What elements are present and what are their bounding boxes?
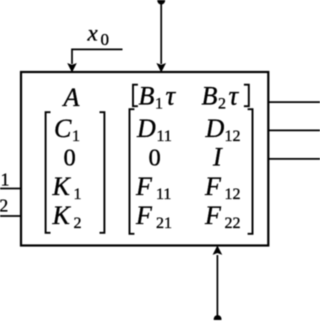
svg-text:A: A <box>62 83 80 112</box>
left bracket of [C1;0;K1;K2] <box>46 112 51 233</box>
wire right output 3 <box>268 158 320 160</box>
arrowhead into box top from x0 wire <box>68 64 76 72</box>
wire right output 1 <box>268 101 320 103</box>
matrix entry C1 <box>54 114 80 145</box>
right bracket of [D;0 I;F;F] <box>248 109 253 234</box>
svg-text:D: D <box>205 114 225 143</box>
svg-text:F: F <box>204 201 222 230</box>
svg-text:22: 22 <box>225 215 241 232</box>
svg-text:11: 11 <box>156 186 171 203</box>
matrix entry F21 <box>135 201 172 232</box>
svg-text:12: 12 <box>225 128 241 145</box>
matrix entry K1 <box>52 172 82 203</box>
svg-text:1: 1 <box>72 128 80 145</box>
svg-text:τ: τ <box>229 80 240 110</box>
node x0 label <box>87 21 110 49</box>
matrix entry B2*tau <box>202 80 240 112</box>
matrix entry F22 <box>204 201 241 232</box>
svg-text:B: B <box>202 81 218 110</box>
wire x0 (bent input wire) <box>72 49 123 64</box>
svg-text:0: 0 <box>149 145 161 172</box>
matrix entry K2 <box>52 201 82 232</box>
svg-text:D: D <box>136 114 156 143</box>
svg-text:1: 1 <box>74 186 82 203</box>
wire left input 1 <box>0 188 21 190</box>
svg-text:1: 1 <box>1 169 10 189</box>
svg-text:21: 21 <box>156 215 172 232</box>
svg-text:x: x <box>87 21 99 46</box>
wire right output 2 <box>268 129 320 131</box>
left bracket of [D;0 I;F;F] <box>130 109 135 234</box>
matrix entry F11 <box>135 172 171 203</box>
matrix entry D12 <box>205 114 241 145</box>
svg-text:B: B <box>139 81 155 110</box>
svg-text:K: K <box>52 201 72 230</box>
svg-text:I: I <box>212 143 223 172</box>
svg-text:τ: τ <box>166 80 177 110</box>
wire left input 2 <box>0 215 21 217</box>
svg-text:12: 12 <box>225 186 241 203</box>
svg-text:K: K <box>52 172 72 201</box>
wire bottom vertical <box>216 255 218 317</box>
svg-text:0: 0 <box>64 145 76 172</box>
right bracket of [B1t B2t] <box>244 85 249 107</box>
svg-text:C: C <box>54 114 72 143</box>
svg-text:F: F <box>135 172 153 201</box>
svg-text:2: 2 <box>0 195 8 215</box>
arrowhead into box top (center) <box>157 64 165 72</box>
junction dot (top) <box>157 0 165 5</box>
svg-text:F: F <box>135 201 153 230</box>
wire top vertical <box>160 1 162 64</box>
svg-text:0: 0 <box>101 30 110 49</box>
left bracket of [B1t B2t] <box>133 85 138 107</box>
matrix entry D11 <box>136 114 172 145</box>
system block (main box) <box>21 72 268 246</box>
svg-text:2: 2 <box>218 95 226 112</box>
right bracket of [C1;0;K1;K2] <box>100 112 105 233</box>
svg-text:11: 11 <box>157 128 172 145</box>
junction dot (bottom) <box>214 315 222 323</box>
arrowhead into box bottom (pointing up) <box>213 246 221 254</box>
svg-text:F: F <box>204 172 222 201</box>
svg-text:1: 1 <box>155 95 163 112</box>
matrix entry B1*tau <box>139 80 177 112</box>
matrix entry F12 <box>204 172 241 203</box>
svg-text:2: 2 <box>74 215 82 232</box>
